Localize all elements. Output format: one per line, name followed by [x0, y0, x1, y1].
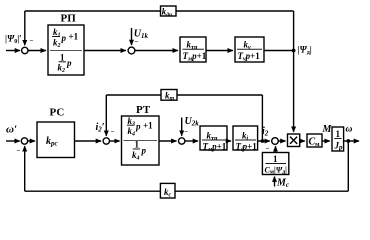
svg-text:Tмp+1: Tмp+1: [183, 51, 207, 63]
svg-text:−: −: [17, 147, 21, 155]
svg-text:k2: k2: [58, 63, 66, 75]
svg-text:ki: ki: [242, 131, 249, 143]
svg-text:Tмp+1: Tмp+1: [203, 142, 227, 154]
svg-text:−: −: [135, 38, 139, 46]
svg-text:−: −: [266, 145, 270, 153]
svg-text:+1: +1: [143, 121, 153, 131]
svg-text:kтп: kтп: [207, 131, 218, 143]
svg-text:i2: i2: [262, 126, 269, 138]
svg-text:−: −: [184, 128, 188, 136]
svg-text:p: p: [61, 33, 67, 43]
svg-text:p: p: [135, 122, 141, 132]
svg-text:U2k: U2k: [185, 116, 200, 128]
svg-text:ω: ω: [346, 125, 353, 135]
svg-text:|Ψ0|′: |Ψ0|′: [5, 34, 22, 46]
svg-text:РП: РП: [61, 13, 77, 25]
svg-text:РС: РС: [50, 107, 65, 119]
svg-text:M: M: [322, 124, 333, 135]
svg-text:ω′: ω′: [6, 124, 17, 136]
svg-text:kрс: kрс: [46, 136, 58, 148]
svg-text:Tip+1: Tip+1: [236, 142, 258, 154]
svg-text:p: p: [141, 146, 147, 156]
svg-text:+1: +1: [69, 32, 79, 42]
svg-text:|Ψд|: |Ψд|: [298, 45, 312, 57]
svg-text:k2: k2: [53, 38, 61, 50]
svg-text:1: 1: [135, 140, 140, 150]
svg-text:1: 1: [60, 53, 65, 63]
svg-text:1: 1: [336, 129, 341, 139]
svg-text:k4: k4: [132, 150, 140, 162]
svg-text:k4: k4: [128, 126, 136, 138]
svg-text:p: p: [66, 58, 72, 68]
svg-text:kтп: kтп: [187, 40, 198, 52]
svg-text:Cм: Cм: [309, 137, 321, 149]
svg-text:Mc: Mc: [276, 178, 289, 190]
svg-text:Jp: Jp: [334, 141, 344, 152]
svg-text:kv: kv: [244, 40, 252, 52]
svg-text:−: −: [30, 37, 34, 45]
svg-text:−: −: [111, 128, 115, 136]
svg-text:i2′: i2′: [96, 122, 105, 134]
svg-text:Cм|Ψд|: Cм|Ψд|: [265, 166, 288, 176]
svg-text:1: 1: [273, 154, 278, 164]
svg-text:Tvp+1: Tvp+1: [238, 51, 261, 63]
svg-text:РТ: РТ: [136, 104, 151, 116]
